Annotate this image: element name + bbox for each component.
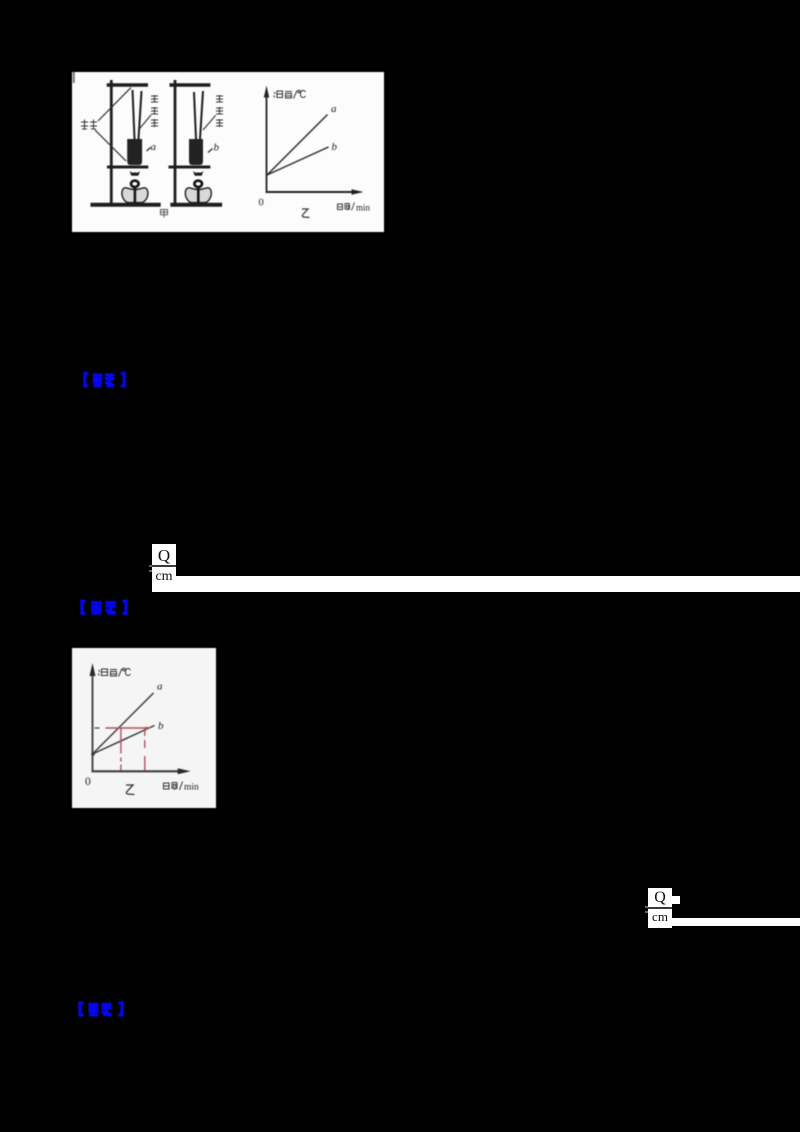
svg-text:0: 0 <box>259 198 264 209</box>
graph x-axis <box>267 191 355 193</box>
svg-text:b: b <box>332 141 338 153</box>
corner artifact <box>73 72 75 83</box>
label jia (first setup) <box>161 210 168 218</box>
red vertical guide t1 <box>120 729 122 771</box>
left iron stand pole <box>110 80 113 204</box>
fraction bar 1 <box>152 565 176 567</box>
inline formula 1: Q over cm <box>152 544 176 567</box>
svg-text:min: min <box>184 783 199 793</box>
label boligang (glass rod) right <box>216 95 223 127</box>
right burner bowl <box>185 188 211 203</box>
denominator cm 2 <box>648 909 672 925</box>
fraction bar 2 <box>648 907 672 909</box>
label yi (second) <box>126 785 135 795</box>
numerator Q 1 <box>152 545 176 566</box>
right stand clamp bar <box>169 166 211 169</box>
svg-text:b: b <box>158 720 164 732</box>
label boligang (glass rod) left <box>151 95 158 127</box>
right wick <box>197 186 200 203</box>
label wendu/C (temperature axis) <box>274 90 306 98</box>
left glass rod <box>133 90 135 139</box>
y-axis <box>92 674 94 772</box>
graph y-axis <box>266 94 268 193</box>
curve b <box>93 726 155 755</box>
pointer to b <box>208 149 213 153</box>
left stand base bar <box>91 203 161 207</box>
right stand base bar <box>170 203 222 207</box>
svg-text:a: a <box>331 103 337 115</box>
figure 2: temperature-time graph with dashed guides <box>72 648 216 808</box>
blue tag 2 <box>80 599 128 616</box>
left stand clamp bar <box>107 166 148 169</box>
right wick ring <box>194 181 202 187</box>
inline formula 2: Q over cm <box>648 888 672 907</box>
left wick <box>134 186 137 203</box>
right flame <box>193 171 203 176</box>
left annotation line to clamp <box>95 130 126 161</box>
svg-text:min: min <box>356 203 371 213</box>
formula 2 line-highlight strip <box>672 918 800 926</box>
curve a <box>93 693 154 754</box>
curve b <box>267 147 329 175</box>
left test tube <box>127 139 142 165</box>
pointer from boligang to rod (left) <box>138 115 151 131</box>
equals tick 2 <box>645 906 648 908</box>
right stand top bar <box>170 83 211 86</box>
svg-text:b: b <box>214 142 220 154</box>
curve a <box>267 115 328 176</box>
right iron stand pole <box>174 80 177 204</box>
left burner bowl <box>122 188 148 203</box>
y arrowhead <box>90 663 96 676</box>
label shijian/min (time axis) <box>164 782 183 791</box>
start node <box>91 752 95 756</box>
red horizontal guide <box>106 727 148 729</box>
left stand top bar <box>107 83 148 86</box>
left flame <box>130 171 140 176</box>
x-axis <box>92 770 180 772</box>
figure 1: experiment apparatus + heating graph <box>72 72 384 232</box>
pointer to a <box>147 148 151 152</box>
x arrowhead <box>352 189 364 194</box>
blue tag 1 <box>83 371 126 389</box>
svg-text:a: a <box>151 141 157 153</box>
label wendu/C (temperature axis) <box>98 668 131 676</box>
right test tube <box>189 139 203 165</box>
guide dash (dark) on temperature level <box>94 727 99 729</box>
pointer from boligang to rod (right) <box>203 115 216 130</box>
label tiejia (iron stand) <box>81 120 97 130</box>
label shijian/min (time axis) <box>338 203 355 211</box>
svg-text:0: 0 <box>85 776 91 788</box>
formula 1 line-highlight strip <box>176 576 800 592</box>
equals tick 1 <box>149 565 152 567</box>
right glass rod <box>194 92 196 139</box>
numerator Q 2 <box>648 888 672 907</box>
label yi (second, graph) <box>302 209 310 218</box>
x arrowhead <box>178 768 191 774</box>
y arrowhead <box>264 86 269 98</box>
red vertical guide t2 <box>144 729 146 771</box>
svg-text:a: a <box>157 681 163 693</box>
left wick ring <box>131 181 139 187</box>
left annotation line to top bar <box>98 88 131 122</box>
blue tag 3 <box>78 1001 124 1017</box>
denominator cm 1 <box>152 568 176 585</box>
